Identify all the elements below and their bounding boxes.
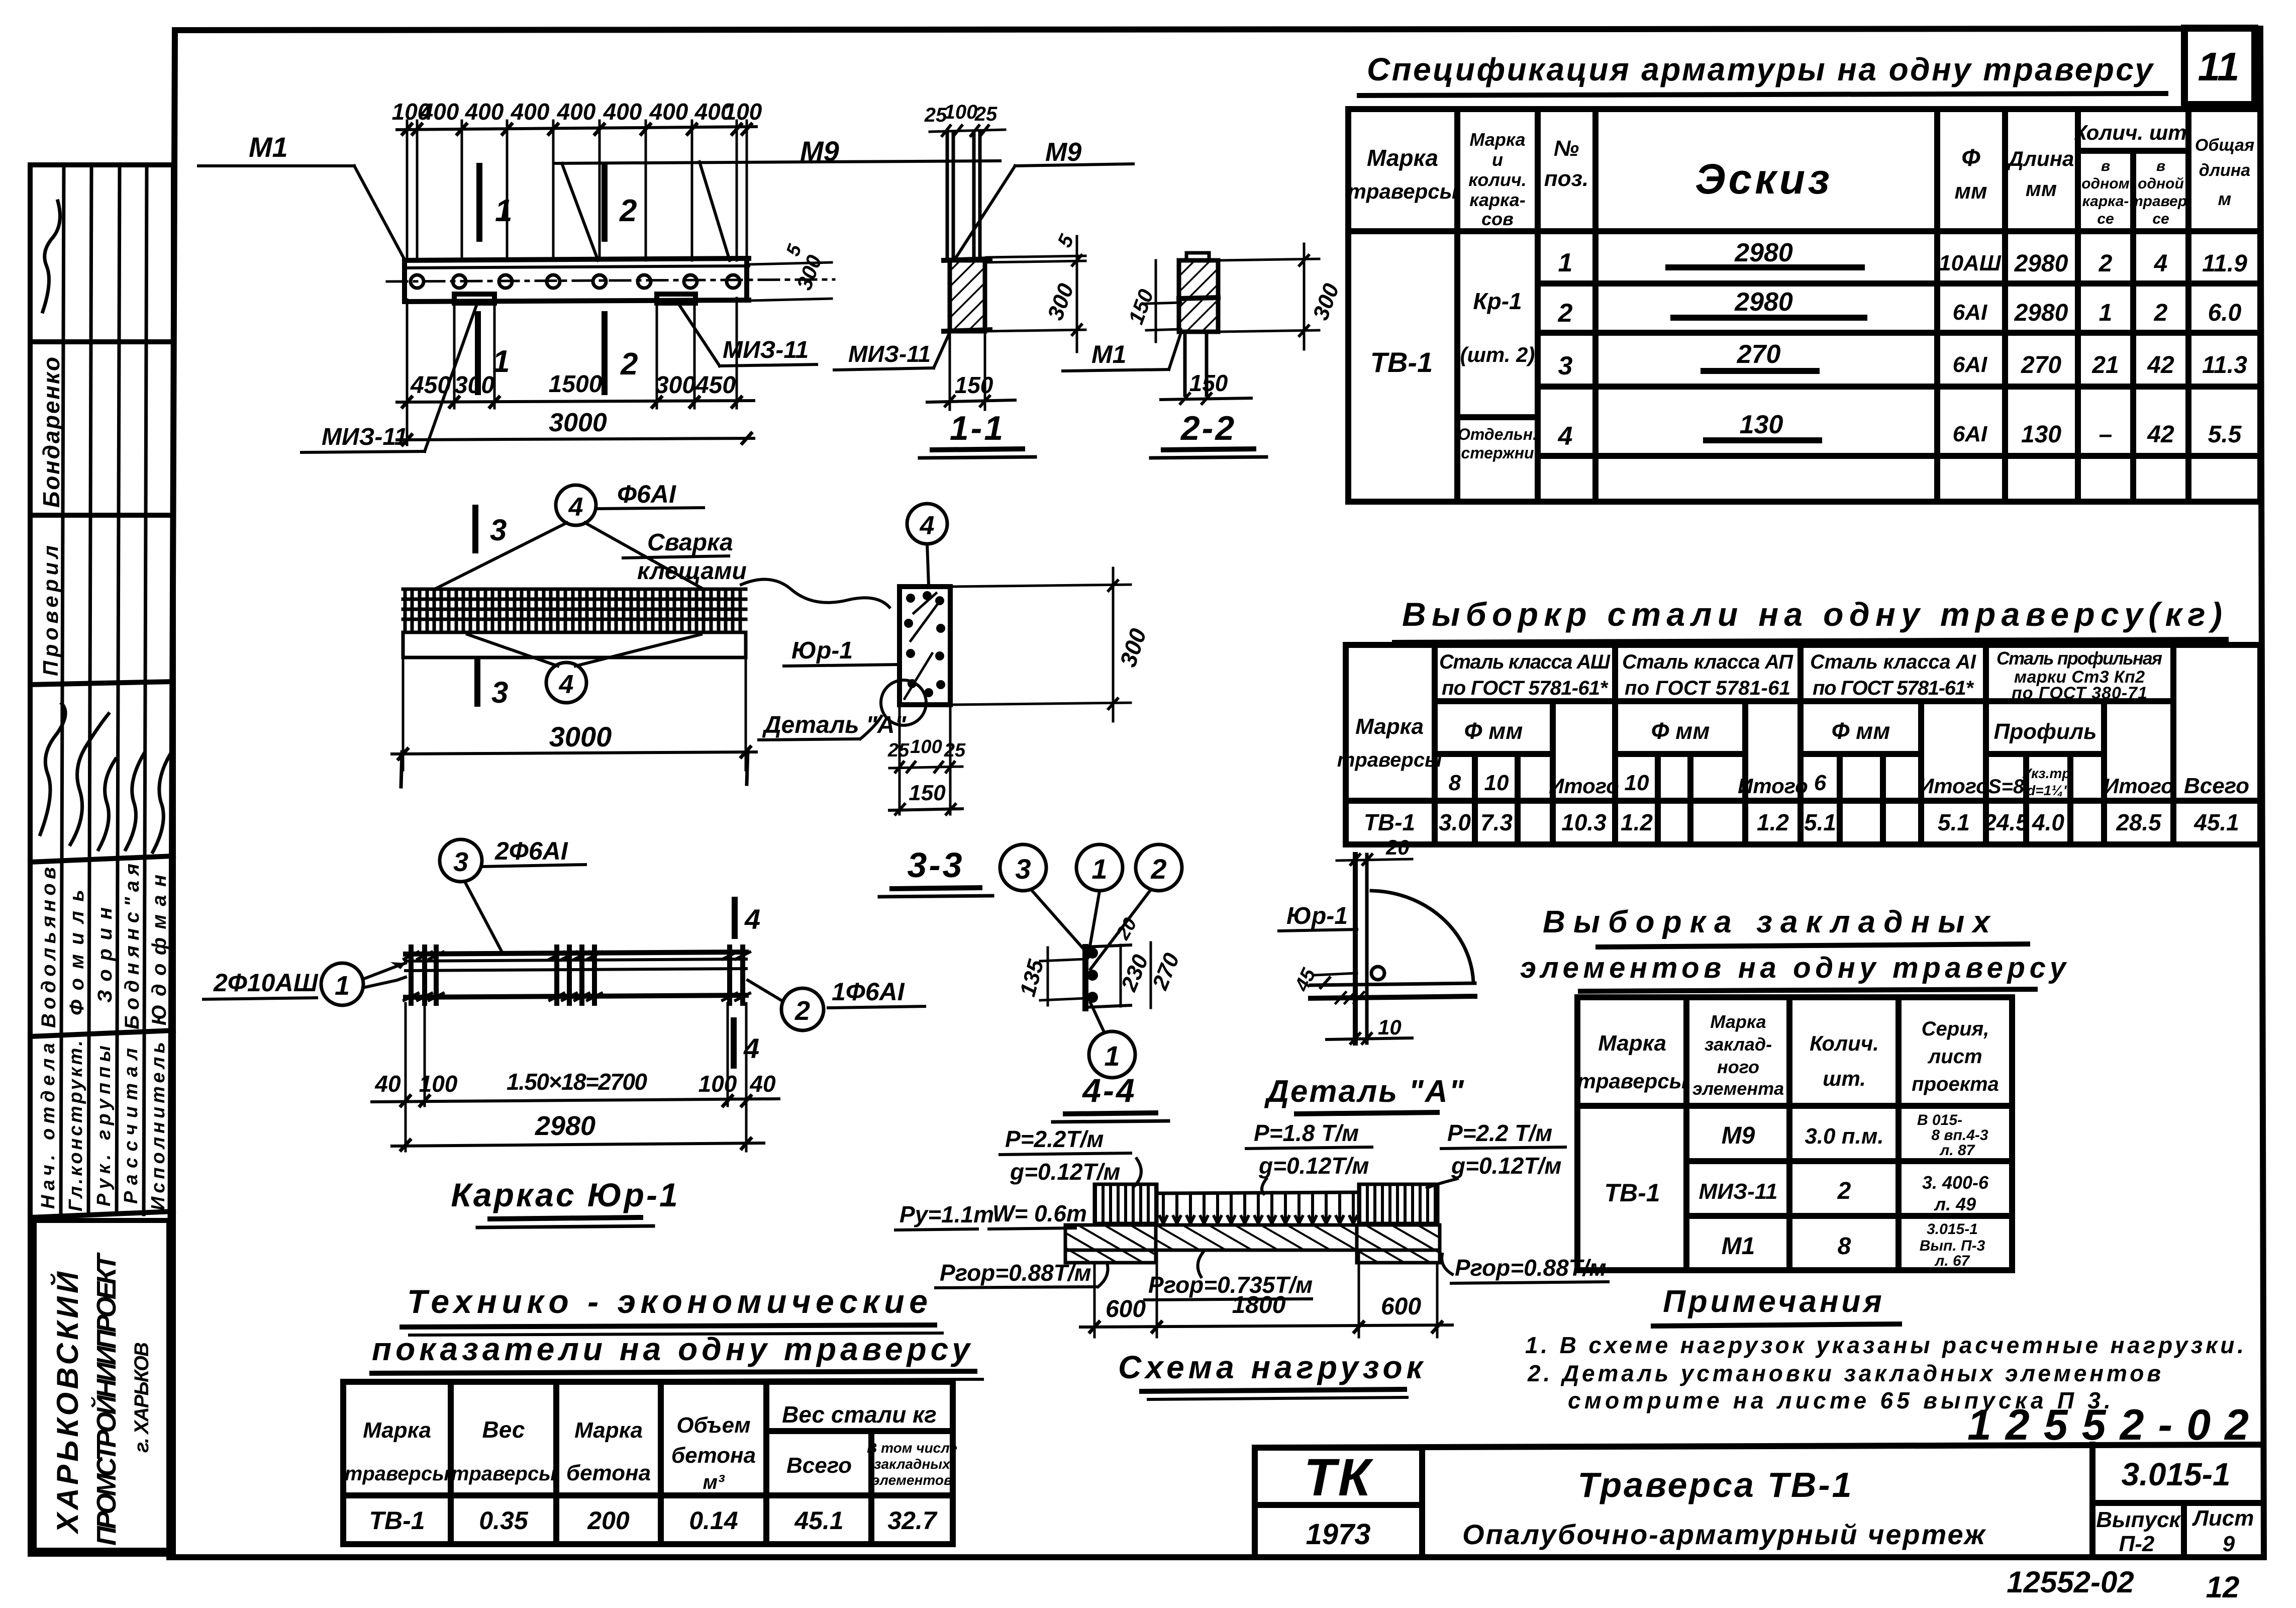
mesh section marks 3 xyxy=(472,508,478,550)
svg-text:Юр-1: Юр-1 xyxy=(1286,903,1348,929)
karkas dim line 40-100-2700-100-40 xyxy=(372,1099,779,1102)
svg-text:поз.: поз. xyxy=(1544,166,1588,191)
svg-text:270: 270 xyxy=(2021,352,2061,379)
svg-text:4: 4 xyxy=(559,670,574,699)
svg-text:d=1¼": d=1¼" xyxy=(2027,783,2070,798)
svg-text:150: 150 xyxy=(1189,370,1228,396)
svg-text:МИЗ-11: МИЗ-11 xyxy=(848,341,931,367)
svg-text:40: 40 xyxy=(374,1071,401,1097)
svg-text:400: 400 xyxy=(603,99,642,125)
TE table grid xyxy=(343,1382,953,1544)
svg-text:1.50×18=2700: 1.50×18=2700 xyxy=(507,1069,647,1095)
svg-text:Ф6АI: Ф6АI xyxy=(617,480,676,508)
detail A circle mark xyxy=(881,680,926,725)
svg-text:по ГОСТ 380-71: по ГОСТ 380-71 xyxy=(2012,684,2147,703)
svg-text:3: 3 xyxy=(491,676,508,709)
svg-text:Колич.: Колич. xyxy=(1810,1031,1879,1055)
svg-text:2980: 2980 xyxy=(535,1111,595,1141)
svg-text:5.1: 5.1 xyxy=(1804,809,1836,835)
svg-text:2: 2 xyxy=(620,347,638,382)
karkas callout circle 1 xyxy=(321,963,363,1005)
svg-text:длина: длина xyxy=(2199,161,2250,180)
mesh callout circle 4 bottom xyxy=(546,663,586,703)
svg-text:Эскиз: Эскиз xyxy=(1695,155,1833,203)
svg-text:2980: 2980 xyxy=(2014,300,2068,326)
svg-text:400: 400 xyxy=(511,99,550,125)
svg-text:Вес стали кг: Вес стали кг xyxy=(782,1401,937,1428)
svg-text:по ГОСТ 5781-61: по ГОСТ 5781-61 xyxy=(1625,677,1790,699)
svg-text:600: 600 xyxy=(1106,1296,1146,1322)
svg-text:ТВ-1: ТВ-1 xyxy=(1370,346,1433,378)
svg-text:42: 42 xyxy=(2147,352,2174,379)
svg-text:Технико - экономические: Технико - экономические xyxy=(407,1283,935,1320)
svg-text:лист: лист xyxy=(1927,1046,1982,1068)
svg-text:130: 130 xyxy=(2021,421,2061,448)
svg-text:3.0: 3.0 xyxy=(1439,809,1471,835)
svg-text:м³: м³ xyxy=(703,1471,726,1493)
title block xyxy=(1255,1445,2263,1557)
svg-text:4: 4 xyxy=(744,903,760,935)
svg-text:ного: ного xyxy=(1717,1057,1759,1077)
svg-text:карка-: карка- xyxy=(1469,190,1525,210)
svg-text:травер-: травер- xyxy=(2130,193,2192,210)
load schema: left support hatch xyxy=(1065,1225,1156,1263)
detail A base hatch ticks xyxy=(1336,992,1364,1003)
svg-text:одной: одной xyxy=(2138,175,2184,192)
svg-text:2980: 2980 xyxy=(2014,250,2068,277)
top dimension line 100x400 xyxy=(397,127,756,130)
mesh band (сетка) xyxy=(405,589,740,632)
svg-text:W= 0.6т: W= 0.6т xyxy=(992,1200,1087,1226)
section 4-4 element xyxy=(1082,947,1088,1008)
stamp top signature scribble xyxy=(43,201,60,312)
svg-text:3-3: 3-3 xyxy=(907,845,964,885)
svg-text:траверсы: траверсы xyxy=(451,1463,556,1485)
svg-text:Выборкр стали на одну трав: Выборкр стали на одну траверсу(кг) xyxy=(1402,596,2226,633)
svg-text:2: 2 xyxy=(1150,853,1166,885)
svg-text:Рассчитал: Рассчитал xyxy=(121,1048,142,1204)
load schema: left load block xyxy=(1095,1185,1156,1223)
section mark 1 bottom xyxy=(475,314,481,392)
svg-text:Боднянс"ая: Боднянс"ая xyxy=(121,864,143,1029)
svg-text:Марка: Марка xyxy=(574,1418,643,1443)
svg-text:11.9: 11.9 xyxy=(2202,250,2247,277)
svg-text:Лист: Лист xyxy=(2192,1506,2254,1531)
svg-text:2. Деталь установки закладны: 2. Деталь установки закладных элементов xyxy=(1527,1360,2161,1386)
section 3-3 callout circle 4 xyxy=(907,504,947,544)
section mark 1 top xyxy=(476,166,482,239)
svg-text:0.35: 0.35 xyxy=(479,1506,529,1535)
svg-text:100: 100 xyxy=(698,1071,737,1097)
svg-text:100: 100 xyxy=(724,99,762,125)
svg-text:М9: М9 xyxy=(1722,1122,1755,1149)
svg-text:проекта: проекта xyxy=(1912,1073,1999,1095)
section 3-3 dim 300 right xyxy=(952,585,1131,587)
stamp strip column lines xyxy=(61,165,147,1214)
svg-text:10: 10 xyxy=(1484,771,1509,795)
svg-text:Итого: Итого xyxy=(2104,774,2174,798)
svg-text:6: 6 xyxy=(1814,771,1827,795)
section 4-4 callout circles 3 1 2 xyxy=(1000,844,1046,891)
svg-text:ПРОМСТРОЙНИИПРОЕКТ: ПРОМСТРОЙНИИПРОЕКТ xyxy=(90,1252,122,1546)
svg-text:400: 400 xyxy=(557,99,596,125)
svg-text:300: 300 xyxy=(655,372,695,399)
svg-text:Деталь "А": Деталь "А" xyxy=(762,712,907,738)
svg-text:6АI: 6АI xyxy=(1953,422,1987,446)
svg-text:Сталь класса АI: Сталь класса АI xyxy=(1810,651,1976,673)
svg-text:Укз.тр.: Укз.тр. xyxy=(2022,766,2074,781)
svg-text:Ф мм: Ф мм xyxy=(1464,718,1523,744)
organization name rotated: ХАРЬКОВСКИЙ ПРОМСТРОЙНИИПРОЕКТ г.Харьков xyxy=(50,1252,153,1546)
karkas callout circle 3 xyxy=(440,839,482,882)
svg-text:100: 100 xyxy=(419,1071,458,1097)
svg-text:45.1: 45.1 xyxy=(2193,809,2239,835)
svg-text:130: 130 xyxy=(1740,410,1783,439)
karkas callout circle 2 xyxy=(781,988,824,1030)
svg-text:400: 400 xyxy=(420,99,459,125)
svg-text:4: 4 xyxy=(568,493,583,522)
beam plan view outline xyxy=(405,258,749,302)
svg-text:1: 1 xyxy=(335,971,350,1001)
svg-text:6АI: 6АI xyxy=(1953,352,1987,377)
left signature stamp strip xyxy=(30,165,173,1554)
svg-text:Сварка: Сварка xyxy=(647,529,733,556)
svg-text:Ру=1.1т: Ру=1.1т xyxy=(900,1201,994,1227)
svg-text:1800: 1800 xyxy=(1232,1292,1286,1318)
svg-text:Деталь "А": Деталь "А" xyxy=(1264,1074,1465,1109)
svg-text:МИЗ-11: МИЗ-11 xyxy=(322,424,408,450)
svg-text:клещами: клещами xyxy=(637,558,747,585)
svg-text:М1: М1 xyxy=(1091,340,1126,368)
section mark 2 top xyxy=(602,166,608,239)
svg-text:6.0: 6.0 xyxy=(2208,300,2242,326)
svg-text:се: се xyxy=(2152,211,2169,227)
svg-text:Марка: Марка xyxy=(1469,129,1525,150)
svg-text:6АI: 6АI xyxy=(1953,300,1987,325)
svg-text:Марка: Марка xyxy=(1367,145,1438,171)
svg-text:2: 2 xyxy=(619,194,637,228)
svg-text:g=0.12Т/м: g=0.12Т/м xyxy=(1451,1153,1561,1179)
svg-text:Кр-1: Кр-1 xyxy=(1473,288,1522,314)
svg-text:стержни: стержни xyxy=(1461,444,1534,462)
svg-text:Траверса ТВ-1: Траверса ТВ-1 xyxy=(1578,1465,1852,1504)
svg-text:в: в xyxy=(2101,158,2110,174)
svg-text:9: 9 xyxy=(2223,1532,2235,1556)
svg-text:11: 11 xyxy=(2198,44,2239,89)
svg-text:Сталь профильная: Сталь профильная xyxy=(1996,648,2162,669)
svg-text:Примечания: Примечания xyxy=(1663,1284,1885,1319)
section 1-1 dims right: 5 over 300 xyxy=(986,256,1085,257)
svg-text:Бондаренко: Бондаренко xyxy=(38,357,64,508)
svg-text:элементов: элементов xyxy=(872,1472,952,1488)
svg-text:5.5: 5.5 xyxy=(2208,421,2242,448)
mesh callout circle 4 top xyxy=(556,485,596,525)
svg-text:150: 150 xyxy=(955,372,993,398)
section 2-2 dim 150 rotated left xyxy=(1146,303,1181,304)
section mark 2 bottom xyxy=(602,314,608,392)
svg-text:заклад-: заклад- xyxy=(1705,1034,1772,1055)
svg-text:показатели на одну траверсу: показатели на одну траверсу xyxy=(372,1331,975,1367)
svg-text:2: 2 xyxy=(2099,250,2113,277)
mesh dim extension ends xyxy=(401,752,402,787)
svg-text:Ргор=0.735Т/м: Ргор=0.735Т/м xyxy=(1148,1272,1313,1298)
detail A upright leg xyxy=(1353,855,1358,1043)
svg-text:Серия,: Серия, xyxy=(1922,1018,1989,1040)
svg-text:М1: М1 xyxy=(1722,1233,1755,1260)
svg-text:100: 100 xyxy=(944,101,978,123)
svg-text:450: 450 xyxy=(695,372,736,399)
svg-text:1-1: 1-1 xyxy=(950,409,1005,447)
svg-text:32.7: 32.7 xyxy=(887,1506,938,1535)
detail A base plate xyxy=(1311,983,1475,985)
svg-text:сов: сов xyxy=(1481,209,1514,229)
stamp signatures scribbles row xyxy=(40,704,172,852)
total dimension 3000 xyxy=(397,438,754,440)
svg-text:траверсы: траверсы xyxy=(1577,1069,1687,1093)
karkas position mark 4 top xyxy=(732,900,738,936)
bottom dimension line 450-300-1500-300-450 xyxy=(397,401,754,402)
stamp roles column: Нач.отдела Гл.конструкт. Рук.группы Рассчитал Исполнитель xyxy=(38,1041,169,1211)
load schema: right load block xyxy=(1360,1185,1435,1223)
svg-text:одном: одном xyxy=(2081,175,2130,192)
svg-text:Р=2.2 Т/м: Р=2.2 Т/м xyxy=(1447,1120,1552,1146)
svg-text:1: 1 xyxy=(2099,300,2113,326)
section 1-1 hatched block xyxy=(950,260,985,331)
svg-text:g=0.12Т/м: g=0.12Т/м xyxy=(1010,1159,1120,1185)
steel table grid xyxy=(1346,645,2260,844)
section 4-4 callout circle 1 bottom xyxy=(1089,1031,1135,1078)
detail A quarter arc plate xyxy=(1371,891,1473,982)
svg-text:по ГОСТ 5781-61*: по ГОСТ 5781-61* xyxy=(1813,677,1974,699)
section 2-2 dim 150 bottom xyxy=(1161,398,1251,400)
svg-text:МИЗ-11: МИЗ-11 xyxy=(1699,1179,1778,1204)
svg-text:12552-02: 12552-02 xyxy=(2007,1565,2134,1599)
section 2-2 dim 300 right xyxy=(1220,259,1319,260)
svg-text:3. 400-6: 3. 400-6 xyxy=(1922,1172,1989,1193)
svg-text:1.2: 1.2 xyxy=(1757,809,1789,835)
svg-text:Профиль: Профиль xyxy=(1994,719,2097,744)
svg-text:ХАРЬКОВСКИЙ: ХАРЬКОВСКИЙ xyxy=(50,1271,84,1535)
svg-text:2: 2 xyxy=(2154,300,2168,326)
section 1-1: dim 25 100 25 xyxy=(924,101,997,126)
load schema: beam hatched strip xyxy=(1065,1225,1440,1250)
detail A weld dot xyxy=(1371,967,1384,980)
svg-text:ТВ-1: ТВ-1 xyxy=(1604,1179,1660,1207)
svg-text:Итого: Итого xyxy=(1549,774,1619,798)
svg-text:Юр-1: Юр-1 xyxy=(791,637,853,664)
svg-text:8 вп.4-3: 8 вп.4-3 xyxy=(1931,1127,1988,1144)
section 1-1 dim 150 xyxy=(949,333,951,410)
svg-text:Выборка закладных: Выборка закладных xyxy=(1543,905,1995,939)
svg-text:Ф мм: Ф мм xyxy=(1651,718,1710,744)
svg-text:Итого: Итого xyxy=(1919,774,1989,798)
section 3-3 block with rebar dots xyxy=(900,587,950,705)
svg-text:1: 1 xyxy=(1558,248,1573,277)
svg-text:1: 1 xyxy=(1104,1040,1120,1072)
svg-text:42: 42 xyxy=(2147,421,2174,448)
svg-text:3: 3 xyxy=(1558,351,1573,381)
svg-text:Ф: Ф xyxy=(1961,145,1980,171)
svg-text:и: и xyxy=(1492,149,1503,170)
svg-text:4: 4 xyxy=(920,511,935,540)
specification table grid xyxy=(1348,109,2260,502)
svg-text:400: 400 xyxy=(465,99,504,125)
svg-text:траверсы: траверсы xyxy=(1337,749,1442,771)
top dimension extension lines xyxy=(407,121,747,260)
svg-text:3000: 3000 xyxy=(549,408,607,437)
svg-text:В 015-: В 015- xyxy=(1917,1112,1962,1128)
svg-text:ТВ-1: ТВ-1 xyxy=(1364,809,1415,835)
beam centerline dash-dot xyxy=(387,279,834,281)
svg-text:8: 8 xyxy=(1838,1233,1851,1260)
svg-text:3: 3 xyxy=(1015,853,1031,885)
svg-text:3.0 п.м.: 3.0 п.м. xyxy=(1805,1124,1883,1149)
beam holes xyxy=(411,275,740,288)
svg-text:1Ф6АI: 1Ф6АI xyxy=(832,978,905,1006)
svg-text:г. ХАРЬКОВ: г. ХАРЬКОВ xyxy=(131,1342,153,1453)
svg-text:Длина: Длина xyxy=(2007,147,2074,170)
svg-text:600: 600 xyxy=(1381,1293,1421,1320)
svg-text:3.015-1: 3.015-1 xyxy=(2121,1456,2230,1492)
svg-text:7.3: 7.3 xyxy=(1480,809,1513,835)
embedded parts table grid xyxy=(1577,997,2012,1270)
svg-text:12: 12 xyxy=(2206,1570,2240,1604)
svg-text:Марка: Марка xyxy=(363,1418,431,1443)
svg-text:25: 25 xyxy=(974,103,997,125)
svg-text:2: 2 xyxy=(794,996,810,1026)
svg-text:1973: 1973 xyxy=(1306,1518,1370,1551)
svg-text:2: 2 xyxy=(1558,299,1573,328)
page number box xyxy=(2184,28,2255,105)
karkas dim 2980 xyxy=(392,1143,764,1146)
svg-text:1: 1 xyxy=(1091,853,1107,885)
svg-text:мм: мм xyxy=(2026,177,2057,201)
svg-text:элемента: элемента xyxy=(1692,1078,1784,1099)
svg-text:карка-: карка- xyxy=(2082,193,2129,210)
svg-text:колич.: колич. xyxy=(1468,169,1527,190)
section 2-2 lower stem xyxy=(1183,332,1187,395)
top dimension labels xyxy=(392,99,762,125)
svg-text:мм: мм xyxy=(1954,179,1987,204)
svg-text:4: 4 xyxy=(2154,250,2168,277)
svg-text:28.5: 28.5 xyxy=(2116,809,2162,835)
svg-text:11.3: 11.3 xyxy=(2202,352,2247,379)
svg-text:400: 400 xyxy=(649,99,688,125)
svg-text:по ГОСТ 5781-61*: по ГОСТ 5781-61* xyxy=(1442,677,1609,699)
svg-text:л. 87: л. 87 xyxy=(1939,1142,1975,1159)
svg-text:шт.: шт. xyxy=(1823,1067,1866,1090)
svg-text:траверсы: траверсы xyxy=(345,1463,450,1485)
svg-text:10АШ: 10АШ xyxy=(1939,251,2002,275)
svg-text:Каркас Юр-1: Каркас Юр-1 xyxy=(451,1176,679,1213)
svg-text:Спецификация арматуры на од: Спецификация арматуры на одну траверсу xyxy=(1367,51,2156,87)
svg-text:М9: М9 xyxy=(1045,138,1081,167)
svg-text:4.0: 4.0 xyxy=(2032,809,2064,835)
section 4-4 dim 135 xyxy=(1047,948,1049,1005)
svg-text:бетона: бетона xyxy=(671,1443,756,1468)
svg-text:S=8: S=8 xyxy=(1988,776,2025,798)
svg-text:Р=1.8 Т/м: Р=1.8 Т/м xyxy=(1254,1120,1359,1146)
svg-text:Ф мм: Ф мм xyxy=(1832,718,1890,744)
svg-text:в: в xyxy=(2156,158,2165,174)
svg-text:21: 21 xyxy=(2091,352,2119,379)
svg-text:8: 8 xyxy=(1449,771,1461,795)
svg-text:2Ф6АI: 2Ф6АI xyxy=(494,837,568,865)
svg-text:10: 10 xyxy=(1625,771,1649,795)
svg-text:2: 2 xyxy=(1837,1178,1851,1204)
svg-text:Всего: Всего xyxy=(2184,774,2249,798)
svg-text:Отдельн.: Отдельн. xyxy=(1458,425,1537,443)
section 3-3 dims 25 100 25 xyxy=(887,736,966,761)
svg-text:4-4: 4-4 xyxy=(1081,1072,1136,1109)
svg-text:Ргор=0.88Т/м: Ргор=0.88Т/м xyxy=(1455,1255,1607,1281)
svg-text:Вып. П-3: Вып. П-3 xyxy=(1920,1238,1985,1254)
svg-text:Вес: Вес xyxy=(482,1416,525,1443)
load schema: right support hatch xyxy=(1357,1225,1440,1263)
stamp names column: Водольянов Фомиль Зорин Боднянская Юдофман xyxy=(38,864,170,1029)
svg-text:Марка: Марка xyxy=(1598,1031,1666,1056)
svg-text:40: 40 xyxy=(749,1071,776,1097)
svg-text:45.1: 45.1 xyxy=(794,1506,843,1535)
svg-text:Схема нагрузок: Схема нагрузок xyxy=(1118,1349,1427,1385)
svg-text:ТК: ТК xyxy=(1304,1448,1374,1507)
karkas frame chords xyxy=(406,952,746,997)
svg-text:м: м xyxy=(2218,188,2232,209)
svg-text:бетона: бетона xyxy=(566,1461,651,1485)
svg-text:20: 20 xyxy=(1385,835,1410,859)
svg-text:–: – xyxy=(2099,421,2113,448)
svg-text:450: 450 xyxy=(410,372,451,399)
svg-text:2980: 2980 xyxy=(1734,288,1793,317)
svg-text:Объем: Объем xyxy=(676,1413,750,1438)
organization box xyxy=(34,1220,169,1550)
svg-text:g=0.12Т/м: g=0.12Т/м xyxy=(1258,1153,1369,1179)
svg-text:Р=2.2Т/м: Р=2.2Т/м xyxy=(1005,1126,1104,1152)
svg-text:л. 49: л. 49 xyxy=(1934,1194,1976,1214)
svg-text:Выпуск: Выпуск xyxy=(2096,1507,2181,1532)
svg-text:Итого: Итого xyxy=(1738,774,1808,798)
svg-text:закладных: закладных xyxy=(874,1456,951,1472)
svg-text:3000: 3000 xyxy=(549,721,612,752)
svg-text:В том числе: В том числе xyxy=(867,1440,957,1456)
svg-text:2980: 2980 xyxy=(1734,238,1793,267)
svg-text:3.015-1: 3.015-1 xyxy=(1927,1221,1978,1238)
svg-text:2-2: 2-2 xyxy=(1180,409,1236,447)
svg-text:траверсы: траверсы xyxy=(1348,179,1458,203)
svg-text:Марка: Марка xyxy=(1355,714,1424,739)
svg-text:270: 270 xyxy=(1737,340,1781,369)
svg-text:Опалубочно-арматурный чертеж: Опалубочно-арматурный чертеж xyxy=(1462,1519,1986,1550)
svg-text:ТВ-1: ТВ-1 xyxy=(369,1506,425,1535)
svg-text:0.14: 0.14 xyxy=(689,1506,738,1535)
svg-text:Марка: Марка xyxy=(1710,1011,1766,1032)
svg-text:Колич. шт.: Колич. шт. xyxy=(2074,121,2192,144)
svg-text:3: 3 xyxy=(453,847,468,877)
svg-text:1: 1 xyxy=(495,194,512,228)
svg-text:(шт. 2): (шт. 2) xyxy=(1460,343,1535,366)
load schema: middle distributed load xyxy=(1157,1192,1359,1193)
svg-text:5.1: 5.1 xyxy=(1938,809,1970,835)
load schema dim line 600 1800 600 xyxy=(1080,1325,1452,1327)
svg-text:1.2: 1.2 xyxy=(1621,809,1653,835)
svg-text:№: № xyxy=(1554,136,1579,161)
svg-text:Сталь класса АШ: Сталь класса АШ xyxy=(1439,651,1611,673)
svg-text:1500: 1500 xyxy=(549,371,603,398)
section 2-2 hatched block xyxy=(1179,260,1218,332)
svg-text:25: 25 xyxy=(944,740,966,761)
svg-text:10.3: 10.3 xyxy=(1561,809,1607,835)
karkas stirrups xyxy=(411,947,743,1003)
